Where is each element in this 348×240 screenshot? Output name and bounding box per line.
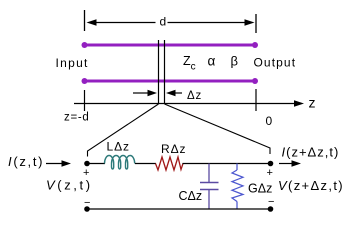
delta-z left arrow: [133, 90, 157, 96]
wire inductor to resistor: [135, 163, 156, 165]
node top-right: [268, 161, 274, 167]
svg-text:I(z+Δz,t): I(z+Δz,t): [282, 145, 340, 160]
svg-text:−: −: [268, 196, 274, 208]
delta-z right arrow: [166, 90, 182, 96]
conductance G (blue zigzag): [232, 164, 243, 210]
wire bottom rail: [87, 208, 271, 210]
dimension d left tick: [84, 10, 86, 31]
callout line left: [88, 104, 159, 157]
svg-text:V(z+Δz,t): V(z+Δz,t): [278, 178, 344, 193]
dimension d line right segment with right arrowhead: [168, 19, 255, 26]
svg-text:Zc: Zc: [183, 54, 196, 73]
node bottom-right: [268, 206, 274, 212]
svg-text:LΔz: LΔz: [107, 140, 130, 154]
callout line right: [165, 104, 271, 154]
resistor R (red zigzag): [156, 157, 184, 170]
z axis: [74, 100, 304, 107]
node top-left: [84, 161, 90, 167]
svg-text:RΔz: RΔz: [161, 142, 186, 156]
wire node to inductor: [87, 163, 105, 165]
svg-text:V(z,t): V(z,t): [46, 178, 93, 193]
svg-text:Output: Output: [254, 56, 297, 70]
current I(z,t) arrow: [46, 160, 71, 166]
svg-text:α: α: [208, 54, 216, 69]
transmission line upper conductor (purple): [82, 42, 259, 48]
wire resistor to node top-right: [183, 163, 271, 165]
svg-text:+: +: [267, 167, 273, 179]
current I(z+dz,t) arrow: [279, 160, 301, 166]
svg-text:GΔz: GΔz: [248, 182, 272, 196]
inductor L (teal coil): [105, 155, 135, 169]
axis tick 0: [255, 89, 257, 111]
dimension d line left segment with left arrowhead: [87, 19, 156, 26]
svg-text:CΔz: CΔz: [179, 189, 203, 203]
svg-text:Δz: Δz: [187, 90, 202, 102]
svg-text:z=-d: z=-d: [64, 112, 90, 124]
svg-text:Input: Input: [56, 56, 89, 70]
slice line right: [164, 40, 166, 104]
capacitor C (purple): [200, 164, 219, 210]
svg-text:z: z: [309, 95, 316, 111]
svg-text:d: d: [160, 15, 167, 29]
slice line left: [158, 40, 160, 104]
transmission line lower conductor (purple): [82, 78, 259, 84]
svg-text:I(z,t): I(z,t): [8, 154, 44, 169]
svg-text:0: 0: [266, 114, 273, 128]
axis tick z=-d: [84, 90, 86, 111]
svg-text:β: β: [231, 54, 238, 69]
dimension d right tick: [255, 14, 257, 33]
node bottom-left: [84, 206, 90, 212]
